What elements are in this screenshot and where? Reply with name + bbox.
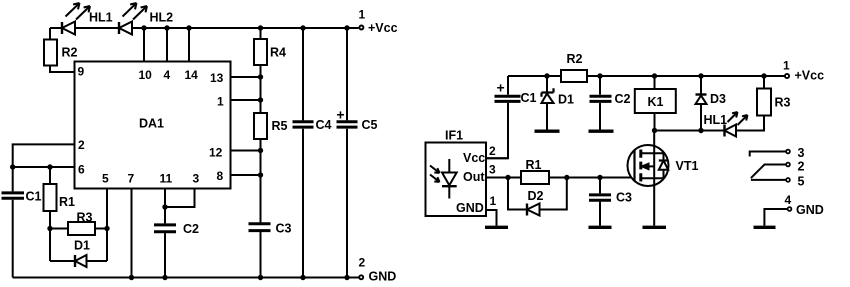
MOSFET VT1 (628, 145, 669, 186)
wire pin 2 to left (13, 144, 75, 167)
wire HL1 to R3 (736, 116, 764, 131)
svg-text:7: 7 (128, 172, 135, 186)
wire R5 to C3 (260, 139, 262, 223)
capacitor C1 (12, 167, 14, 191)
svg-text:4: 4 (164, 68, 171, 82)
wire pin 12 stub (231, 150, 261, 152)
svg-text:+Vcc: +Vcc (368, 21, 398, 35)
resistor R3 right (763, 76, 765, 89)
terminal 4 GND right (788, 207, 792, 211)
svg-text:HL1: HL1 (704, 113, 728, 127)
svg-text:C4: C4 (316, 118, 332, 132)
svg-text:1: 1 (359, 8, 366, 22)
wire left top rail (50, 27, 359, 29)
wire pin 10 stub (143, 28, 145, 62)
svg-text:HL1: HL1 (89, 11, 113, 25)
svg-text:C1: C1 (521, 91, 537, 105)
svg-text:1: 1 (217, 95, 224, 109)
terminal 1 +Vcc right (785, 74, 789, 78)
svg-text:11: 11 (160, 172, 173, 186)
ground terminal 4 (754, 226, 776, 229)
svg-text:R5: R5 (272, 119, 288, 133)
svg-text:IF1: IF1 (445, 129, 463, 143)
wire pin 13 stub (231, 76, 261, 78)
svg-text:1: 1 (490, 194, 497, 208)
wire R2 to pin 9 (50, 28, 75, 72)
svg-text:+: + (336, 107, 344, 123)
svg-text:VT1: VT1 (676, 159, 699, 173)
svg-text:8: 8 (217, 169, 224, 183)
terminal 4 GND wire (764, 209, 787, 226)
capacitor C3 right (599, 178, 601, 226)
ground C3 (589, 226, 612, 229)
capacitor C1 right branch (486, 76, 508, 158)
svg-text:R2: R2 (62, 46, 78, 60)
wire pin 3 down (165, 189, 195, 208)
svg-text:2: 2 (798, 160, 805, 174)
svg-text:+Vcc: +Vcc (795, 69, 825, 83)
capacitor C2 right (599, 76, 601, 130)
wire pin 1 GND stub (486, 210, 497, 226)
svg-text:C2: C2 (183, 222, 199, 236)
svg-text:DA1: DA1 (139, 117, 164, 131)
resistor R2 right (561, 70, 587, 82)
resistor R1 right (521, 171, 549, 184)
terminal 1 +Vcc left (359, 26, 363, 30)
contact terminals circles (786, 150, 790, 154)
contact 5 (751, 179, 786, 181)
diode D1 (50, 260, 107, 262)
wire K1/VT1 drain to HL1 (655, 130, 725, 132)
wire pin 8 stub (231, 174, 261, 176)
svg-text:D3: D3 (710, 92, 726, 106)
svg-text:Out: Out (463, 170, 485, 184)
IC IF1 box (426, 143, 487, 217)
svg-text:3: 3 (193, 172, 200, 186)
svg-text:10: 10 (139, 68, 153, 82)
capacitor C4 (302, 28, 304, 278)
wire pin 1 stub (231, 99, 261, 101)
resistor R2 (44, 40, 57, 66)
svg-text:1: 1 (783, 59, 790, 73)
svg-text:D1: D1 (74, 239, 90, 253)
svg-text:C1: C1 (26, 190, 42, 204)
wire pin 7 down (131, 189, 133, 278)
svg-text:12: 12 (209, 146, 223, 160)
ground D1 (535, 129, 560, 132)
svg-text:4: 4 (785, 193, 792, 207)
wire pin 2 Vcc stub (486, 157, 508, 159)
zener D1 right (546, 76, 548, 130)
svg-text:GND: GND (369, 270, 397, 284)
ground C2 (589, 129, 614, 132)
capacitor C5 (346, 28, 348, 278)
svg-text:9: 9 (78, 65, 85, 79)
resistor R5 (254, 113, 267, 139)
wire pin 6 to left (13, 166, 75, 168)
svg-text:K1: K1 (648, 95, 664, 109)
svg-text:Vcc: Vcc (463, 151, 485, 165)
wire pin 14 stub (188, 28, 190, 62)
svg-text:C5: C5 (362, 118, 378, 132)
svg-text:3: 3 (798, 146, 805, 160)
wire right top rail (508, 75, 785, 77)
svg-text:D2: D2 (528, 189, 544, 203)
junction dots left (10, 25, 350, 280)
svg-text:HL2: HL2 (150, 11, 174, 25)
svg-text:R4: R4 (270, 46, 286, 60)
svg-text:R2: R2 (567, 52, 583, 66)
svg-text:14: 14 (185, 68, 199, 82)
svg-text:5: 5 (798, 175, 805, 189)
svg-text:C3: C3 (276, 222, 292, 236)
svg-text:R3: R3 (77, 211, 93, 225)
diode D3 (700, 76, 702, 131)
svg-text:2: 2 (78, 138, 85, 152)
LED HL2 (119, 3, 147, 35)
svg-text:2: 2 (359, 256, 366, 270)
contact 2 armature (751, 165, 786, 179)
IC DA1 box (75, 62, 231, 189)
wire pin 5 down (106, 189, 108, 262)
contact 3 (750, 152, 786, 157)
wire pin 4 stub (166, 28, 168, 62)
wire pin 3 Out stub (486, 177, 521, 179)
svg-text:C3: C3 (616, 191, 632, 205)
svg-text:R3: R3 (775, 96, 791, 110)
svg-text:GND: GND (796, 203, 824, 217)
svg-text:5: 5 (102, 172, 109, 186)
resistor R1 (49, 167, 51, 184)
svg-text:C2: C2 (615, 92, 631, 106)
svg-text:+: + (497, 80, 505, 96)
relay K1 (654, 76, 656, 131)
svg-text:GND: GND (456, 201, 484, 215)
terminal 2 GND left (359, 275, 363, 279)
svg-text:R1: R1 (526, 158, 542, 172)
photodiode inside IF1 (448, 159, 450, 199)
ground IF1 (485, 226, 508, 229)
capacitor C3 (249, 224, 271, 231)
wire pin 11 / C2 branch (164, 189, 166, 224)
wire R1 to gate (549, 177, 635, 179)
svg-text:3: 3 (489, 163, 496, 177)
wire left bottom rail (13, 277, 359, 279)
svg-text:2: 2 (489, 144, 496, 158)
wire R4 to R5 (260, 65, 262, 113)
ground VT1 (643, 226, 667, 229)
resistor R4 (260, 28, 262, 39)
resistor R3 (50, 228, 107, 230)
svg-text:13: 13 (210, 71, 224, 85)
svg-text:R1: R1 (59, 195, 75, 209)
capacitor C2 (154, 225, 176, 232)
LED HL1 right (723, 125, 725, 137)
junction dots right (505, 73, 766, 180)
LED HL1 (62, 3, 90, 35)
svg-text:6: 6 (78, 163, 85, 177)
diode D2 (508, 178, 567, 210)
svg-text:D1: D1 (558, 93, 574, 107)
